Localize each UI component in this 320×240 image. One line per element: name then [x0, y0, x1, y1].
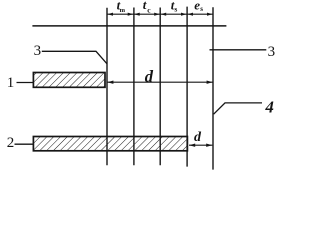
- extension line L3: [159, 8, 161, 166]
- leader 1: [17, 82, 34, 84]
- top dim arrows segment t_s: [161, 13, 167, 16]
- svg-text:4: 4: [264, 97, 274, 116]
- svg-text:s: s: [200, 5, 203, 13]
- top dim arrows segment t_m: [108, 13, 114, 16]
- top dim arrows segment t_c: [134, 13, 140, 16]
- svg-text:2: 2: [7, 135, 15, 151]
- svg-text:t: t: [143, 0, 147, 12]
- top surface line: [32, 25, 226, 27]
- svg-text:d: d: [145, 67, 154, 86]
- dimension d middle: [107, 81, 213, 83]
- leader 4: [214, 103, 262, 114]
- svg-text:1: 1: [7, 75, 15, 91]
- extension line L4: [186, 7, 188, 167]
- svg-text:m: m: [120, 7, 126, 14]
- svg-text:3: 3: [268, 44, 276, 60]
- leader 2: [15, 143, 34, 145]
- leader 3 left: [42, 51, 107, 64]
- svg-text:3: 3: [34, 43, 42, 59]
- top dim arrows segment e_s: [188, 13, 194, 16]
- extension line L5: [212, 7, 214, 169]
- plate 2 (hatched bar lower): [33, 137, 187, 151]
- leader 3 right: [210, 49, 267, 51]
- extension line L2: [133, 8, 135, 166]
- svg-text:s: s: [174, 5, 177, 14]
- svg-text:d: d: [194, 130, 202, 145]
- dimension d bottom: [189, 144, 212, 146]
- plate 1 (hatched bar upper): [33, 73, 105, 88]
- extension line L1: [106, 8, 108, 166]
- top dimension line: [107, 13, 213, 15]
